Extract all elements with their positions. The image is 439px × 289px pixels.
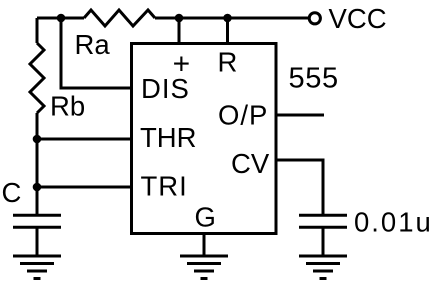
svg-text:CV: CV bbox=[231, 148, 270, 179]
junction: Ra/Rb/DIS node bbox=[57, 14, 66, 23]
wire: VCC rail right segment to VCC terminal bbox=[155, 17, 308, 20]
wire: G pin to ground bbox=[203, 234, 206, 256]
wire: TRI pin bbox=[37, 186, 132, 189]
wire: DIS pin from Ra/Rb node bbox=[61, 18, 132, 88]
capacitor C3 (0.01u) plates bbox=[299, 215, 347, 256]
terminal: VCC open circle bbox=[309, 13, 320, 24]
svg-text:VCC: VCC bbox=[329, 3, 387, 34]
junction: rail to + pin bbox=[175, 14, 184, 23]
ground (center, under G pin) bbox=[180, 256, 228, 279]
svg-text:THR: THR bbox=[140, 122, 197, 153]
ground (right, under 0.01u) bbox=[299, 256, 347, 279]
svg-text:Rb: Rb bbox=[50, 91, 85, 122]
wire: left vertical rail top (VCC to Rb) bbox=[36, 18, 39, 43]
svg-text:C: C bbox=[2, 177, 22, 208]
svg-text:0.01u: 0.01u bbox=[354, 207, 433, 238]
wire: O/P output stub bbox=[276, 114, 324, 117]
svg-text:DIS: DIS bbox=[141, 73, 190, 104]
junction: rail to R pin bbox=[223, 14, 232, 23]
resistor Ra bbox=[84, 10, 155, 26]
op-amp U1: 555 IC body bbox=[132, 44, 277, 234]
svg-text:TRI: TRI bbox=[141, 171, 188, 202]
svg-text:G: G bbox=[195, 202, 216, 233]
wire: Rb bottom to THR node bbox=[36, 113, 39, 187]
svg-text:555: 555 bbox=[289, 63, 339, 95]
svg-text:R: R bbox=[218, 47, 238, 78]
wire: R pin from rail bbox=[226, 18, 229, 44]
svg-text:O/P: O/P bbox=[218, 100, 268, 131]
ground (left, under C) bbox=[13, 256, 61, 279]
wire: THR pin bbox=[37, 138, 132, 141]
junction: THR/TRI/C node bbox=[33, 183, 42, 192]
wire: + pin from rail bbox=[178, 18, 181, 44]
svg-text:Ra: Ra bbox=[75, 29, 111, 60]
capacitor C (timing) plates bbox=[13, 187, 61, 256]
junction: Rb to THR bbox=[33, 135, 42, 144]
wire: CV pin to 0.01u capacitor bbox=[276, 160, 323, 214]
resistor Rb bbox=[30, 43, 44, 113]
wire: VCC rail left segment bbox=[37, 17, 84, 20]
